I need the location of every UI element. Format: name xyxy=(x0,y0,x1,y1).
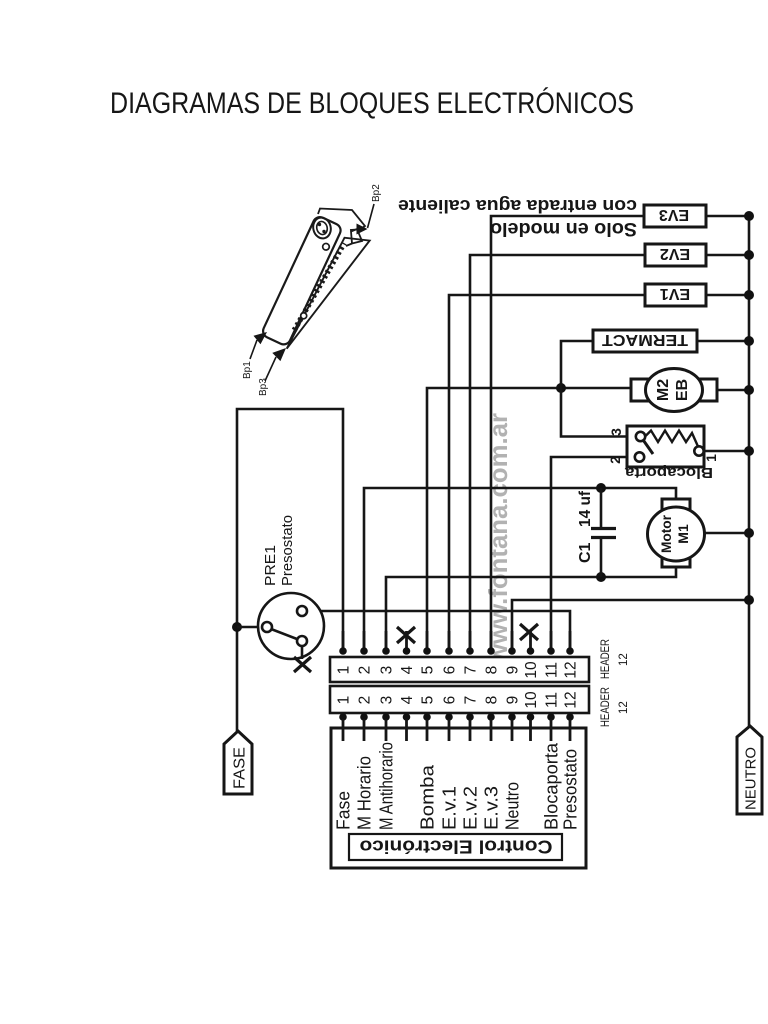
svg-text:EB: EB xyxy=(674,379,691,401)
arrow Bp1 xyxy=(242,332,267,379)
svg-text:Fase: Fase xyxy=(334,791,354,830)
svg-text:6: 6 xyxy=(442,666,459,675)
wire EV3 to bus xyxy=(706,215,749,218)
svg-text:HEADER: HEADER xyxy=(600,639,612,679)
svg-text:5: 5 xyxy=(420,666,437,675)
wire junction to relay pin3 xyxy=(561,388,636,437)
svg-text:TERMACT: TERMACT xyxy=(602,331,688,348)
header J2 pin 8 xyxy=(484,696,501,741)
header J1 pin 2 xyxy=(357,631,374,674)
node EV1-bus xyxy=(744,290,754,300)
svg-text:M1: M1 xyxy=(675,524,691,544)
svg-text:12: 12 xyxy=(563,661,580,678)
header J2 box xyxy=(330,686,589,713)
svg-text:6: 6 xyxy=(442,696,459,705)
svg-text:10: 10 xyxy=(523,691,540,709)
connector FASE xyxy=(224,731,252,794)
svg-text:2: 2 xyxy=(357,666,374,675)
header J2 label HEADER 12 xyxy=(600,687,630,727)
node motor-bus xyxy=(744,528,754,538)
header J2 pin 9 xyxy=(505,696,522,741)
node C1 top xyxy=(596,483,606,493)
node FASE-PRE1 junction xyxy=(232,622,242,632)
svg-text:Neutro: Neutro xyxy=(503,782,523,830)
header J2 pin 11 xyxy=(544,692,561,741)
control board box xyxy=(331,728,586,868)
pump motor M2 EB xyxy=(631,369,717,412)
wire M2 to bus xyxy=(717,389,749,392)
pressure switch PRE1 xyxy=(258,515,324,659)
node pin9-bus xyxy=(744,595,754,605)
svg-text:EV2: EV2 xyxy=(660,245,690,262)
svg-text:5: 5 xyxy=(420,696,437,705)
wire motor M1 to bus xyxy=(704,532,749,535)
svg-text:3: 3 xyxy=(379,696,396,705)
header J1 pin 10 xyxy=(523,631,540,679)
node EV2-bus xyxy=(744,250,754,260)
wire FASE to header pin1 xyxy=(237,409,343,731)
wire header pin3 to C1 bottom and motor bottom xyxy=(386,567,676,648)
svg-text:3: 3 xyxy=(379,666,396,675)
svg-text:Blocaporta: Blocaporta xyxy=(542,742,562,830)
svg-text:EV3: EV3 xyxy=(659,206,689,223)
header J1 pin 9 xyxy=(505,631,522,674)
svg-text:Bp1: Bp1 xyxy=(242,361,253,379)
X mark pin10 xyxy=(520,624,538,640)
node M2-bus xyxy=(744,385,754,395)
header J2 pin 2 xyxy=(357,696,374,741)
wire EV1 to bus xyxy=(706,294,749,297)
wire header pin2 to C1 top and motor top xyxy=(364,488,676,648)
wire header pin8 to EV3 xyxy=(491,216,644,648)
svg-text:2: 2 xyxy=(357,696,374,705)
svg-text:M Horario: M Horario xyxy=(355,756,375,830)
wire EV2 to bus xyxy=(706,254,749,257)
node EV3-bus xyxy=(744,211,754,221)
header J1 pin 7 xyxy=(463,631,480,674)
svg-text:DIAGRAMAS DE BLOQUES ELECTRÓNI: DIAGRAMAS DE BLOQUES ELECTRÓNICOS xyxy=(110,87,634,120)
header J1 pin 12 xyxy=(563,631,580,679)
svg-text:Control Electrónico: Control Electrónico xyxy=(360,837,553,857)
svg-text:E.v.1: E.v.1 xyxy=(440,786,460,830)
header J1 pin 11 xyxy=(544,631,561,678)
header J2 pin 5 xyxy=(420,696,437,741)
header J2 pin 7 xyxy=(463,696,480,741)
header J2 pin 12 xyxy=(563,691,580,741)
svg-text:1: 1 xyxy=(336,696,353,705)
main motor M1 xyxy=(648,499,705,567)
solenoid EV3 xyxy=(644,205,706,227)
header J1 pin 4 xyxy=(399,631,416,674)
svg-text:www.fontana.com.ar: www.fontana.com.ar xyxy=(483,413,513,665)
svg-text:FASE: FASE xyxy=(232,747,249,789)
svg-text:12: 12 xyxy=(563,691,580,708)
svg-text:EV1: EV1 xyxy=(660,285,690,302)
svg-text:11: 11 xyxy=(544,662,561,678)
node pin5-termact junction xyxy=(556,383,566,393)
header J1 pin 3 xyxy=(379,631,396,674)
solenoid EV2 xyxy=(645,244,706,266)
svg-text:4: 4 xyxy=(399,695,416,704)
svg-text:3: 3 xyxy=(608,428,624,436)
header J1 pin 8 xyxy=(484,631,501,674)
X mark pin4 xyxy=(397,627,415,643)
svg-text:E.v.3: E.v.3 xyxy=(482,786,502,830)
svg-text:HEADER: HEADER xyxy=(600,687,612,727)
header J1 pin 1 xyxy=(336,631,353,674)
svg-text:10: 10 xyxy=(523,661,540,679)
wire TERMACT to bus xyxy=(697,340,749,343)
svg-text:Solo en modelo: Solo en modelo xyxy=(490,218,637,239)
wire PRE1 top terminal to header pin12 xyxy=(307,611,570,648)
svg-text:Presostato: Presostato xyxy=(279,515,296,586)
svg-text:M2: M2 xyxy=(655,379,672,401)
node TERMACT-bus xyxy=(744,336,754,346)
header J2 pin 6 xyxy=(442,696,459,741)
arrow Bp2 xyxy=(357,184,383,235)
svg-text:1: 1 xyxy=(336,666,353,675)
svg-text:11: 11 xyxy=(544,692,561,708)
X mark below PRE1 xyxy=(294,657,311,672)
svg-text:9: 9 xyxy=(505,666,522,675)
header J2 pin 10 xyxy=(523,691,540,741)
svg-text:Bp2: Bp2 xyxy=(371,184,382,202)
svg-text:7: 7 xyxy=(463,666,480,675)
header J1 pin 6 xyxy=(442,631,459,674)
wire header pin5 to M2 EB xyxy=(427,388,631,648)
svg-text:Blocaporta: Blocaporta xyxy=(624,464,713,481)
wire junction to TERMACT xyxy=(561,341,593,388)
header J1 pin 5 xyxy=(420,631,437,674)
svg-text:E.v.2: E.v.2 xyxy=(461,786,481,830)
svg-text:2: 2 xyxy=(607,456,623,464)
header J2 pin 3 xyxy=(379,696,396,741)
svg-text:PRE1: PRE1 xyxy=(262,545,279,586)
wire header pin7 to EV2 xyxy=(470,255,645,648)
control board title box xyxy=(349,834,562,860)
node relay-bus xyxy=(744,446,754,456)
header J1 label HEADER 12 xyxy=(600,639,630,679)
svg-text:12: 12 xyxy=(618,701,630,714)
svg-text:9: 9 xyxy=(505,696,522,705)
wire header pin9 to bus xyxy=(512,600,749,648)
neutro bus wire xyxy=(748,216,751,726)
pressure switch opening ellipse xyxy=(311,216,333,241)
header J1 box xyxy=(330,657,589,682)
node C1 bottom xyxy=(596,572,606,582)
pressure switch isometric drawing xyxy=(260,215,370,361)
header J2 pin 4 xyxy=(399,695,416,741)
connector NEUTRO xyxy=(737,726,762,814)
wire relay pin1 to bus xyxy=(704,450,749,453)
wire junction to PRE1 left terminal xyxy=(237,626,262,629)
relay Blocaporta xyxy=(607,426,719,481)
pressure switch connector bracket xyxy=(318,209,365,247)
svg-text:M Antihorario: M Antihorario xyxy=(377,742,397,830)
solenoid EV1 xyxy=(645,284,706,306)
svg-text:8: 8 xyxy=(484,666,501,675)
svg-text:14 uf: 14 uf xyxy=(577,490,594,527)
svg-text:7: 7 xyxy=(463,696,480,705)
svg-text:1: 1 xyxy=(703,454,719,462)
arrow Bp3 xyxy=(258,348,286,396)
svg-text:Bomba: Bomba xyxy=(418,764,438,830)
header J2 pin 1 xyxy=(336,696,353,741)
svg-text:4: 4 xyxy=(399,665,416,674)
svg-text:NEUTRO: NEUTRO xyxy=(743,747,760,810)
svg-text:C1: C1 xyxy=(577,542,594,563)
svg-text:Motor: Motor xyxy=(658,514,674,553)
svg-text:8: 8 xyxy=(484,696,501,705)
wire header pin6 to EV1 xyxy=(449,295,645,648)
svg-text:Presostato: Presostato xyxy=(561,749,581,830)
svg-text:con entrada agua caliente: con entrada agua caliente xyxy=(398,196,637,216)
thermal actuator TERMACT xyxy=(593,330,697,352)
capacitor C1 xyxy=(577,488,616,577)
svg-text:12: 12 xyxy=(618,653,630,666)
wire relay pin2 to header pin11 xyxy=(551,457,635,648)
svg-text:Bp3: Bp3 xyxy=(258,378,269,396)
